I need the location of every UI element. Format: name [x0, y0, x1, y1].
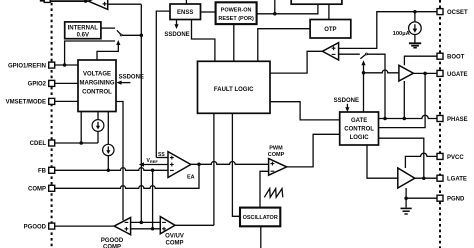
wire PGND pin	[406, 197, 437, 199]
current source I1 wires	[97, 112, 99, 120]
svg-text:MARGINING: MARGINING	[80, 81, 115, 87]
pin PGND	[437, 195, 443, 201]
svg-text:EA: EA	[187, 175, 195, 181]
wire gate control to lower driver input	[367, 145, 398, 178]
wire switch SW1 control from voltage margining control	[97, 44, 118, 60]
svg-text:GPIO1/REFIN: GPIO1/REFIN	[8, 63, 46, 69]
IC boundary right (dashed)	[439, 0, 441, 248]
wire cut block to OTP	[328, 4, 330, 19]
internal 0.6V reference U-REF	[65, 22, 101, 39]
wire FB net (with hops)	[55, 168, 168, 171]
IC boundary left (dashed)	[51, 3, 53, 248]
wire shared - inputs (VREF node)	[131, 221, 161, 223]
svg-text:SSDONE: SSDONE	[334, 98, 359, 104]
wire ENSS to POR	[201, 11, 216, 13]
node driver input tap	[362, 71, 366, 75]
wire OC output to fault logic	[270, 51, 322, 73]
node POR output branch	[273, 12, 277, 16]
svg-text:CONTROL: CONTROL	[82, 89, 112, 95]
wire FB down to comparators	[152, 170, 154, 229]
wire 100uA source top	[414, 12, 416, 22]
arrow SSDONE into margining control	[116, 81, 121, 85]
node EA output	[197, 163, 201, 167]
power-on reset block	[216, 2, 257, 24]
svg-text:OSCILLATOR: OSCILLATOR	[243, 215, 278, 221]
pin COMP	[49, 185, 55, 191]
svg-text:VREF: VREF	[147, 158, 159, 164]
wire LGATE output	[415, 177, 437, 179]
arrow SW2 control	[363, 64, 365, 73]
node REFIN tap on GPIO1 wire	[63, 63, 67, 67]
svg-text:SSDONE: SSDONE	[119, 74, 144, 80]
sawtooth waveform symbol	[264, 189, 283, 198]
oscillator block	[240, 208, 280, 227]
svg-text:COMP: COMP	[103, 244, 121, 248]
node I2 on FB line	[107, 169, 111, 173]
wire 0.6V output to switch	[101, 27, 115, 29]
comparator OV/UV	[160, 217, 175, 234]
svg-text:PHASE: PHASE	[447, 117, 468, 123]
wire PVCC to lower driver (hop over LGATE feedback)	[405, 153, 437, 168]
svg-text:PWM: PWM	[269, 146, 283, 152]
wire gate control to PHASE	[379, 115, 438, 118]
svg-text:LGATE: LGATE	[447, 177, 467, 183]
svg-text:CONTROL: CONTROL	[344, 126, 374, 132]
wire OV/UV output to fault logic	[175, 224, 214, 226]
node FB at comparators	[151, 227, 155, 231]
wire upper driver input (hop over sample line)	[364, 70, 399, 73]
pin LGATE	[437, 175, 443, 181]
ground symbol (power ground)	[401, 207, 412, 209]
ground symbol (OCSET source)	[409, 42, 421, 44]
node VREF at comparators	[140, 221, 144, 225]
pin top-left (cut off)	[44, 0, 50, 2]
svg-text:GPIO2: GPIO2	[28, 82, 47, 88]
wire OV/UV comparator to fault logic	[213, 113, 215, 225]
arrow SSDONE out of ENSS	[176, 20, 178, 26]
switch SW2 contact	[366, 53, 368, 55]
svg-text:PGND: PGND	[447, 197, 465, 203]
wire oscillator bottom (cut)	[260, 226, 262, 248]
wire 100uA to ground	[414, 35, 416, 43]
comparator PWM	[269, 159, 287, 176]
wire ENSS to SS (error amp)	[156, 11, 170, 157]
fault logic block	[198, 61, 271, 113]
node FB to comparators	[151, 169, 155, 173]
svg-text:GATE: GATE	[351, 118, 367, 124]
pin GPIO1/REFIN	[49, 62, 55, 68]
node 100uA tap on OCSET	[413, 10, 417, 14]
ENSS block	[170, 4, 201, 20]
wire GPIO1/REFIN to margining control	[55, 64, 78, 66]
wire POR to fault logic	[233, 24, 235, 61]
wire margining control to PGOOD comparator	[116, 102, 123, 221]
wire OCSET net	[339, 12, 437, 49]
wire top-left pin to comparator output	[50, 0, 89, 2]
node PHASE sample tap	[383, 117, 387, 121]
svg-text:OCSET: OCSET	[447, 10, 468, 16]
arrow SSDONE into gate control	[346, 104, 348, 109]
pin PVCC	[437, 153, 443, 159]
wire BOOT to upper driver	[404, 56, 437, 65]
node PHASE driver return tap	[403, 117, 407, 121]
svg-text:OTP: OTP	[324, 27, 336, 33]
wire CDEL pin to node	[55, 142, 98, 144]
pin CDEL	[49, 140, 55, 146]
node UGATE	[423, 72, 427, 76]
svg-text:POWER-ON: POWER-ON	[221, 8, 252, 14]
wire POR output right	[257, 4, 318, 14]
svg-text:PGOOD: PGOOD	[24, 224, 47, 230]
pin FB	[49, 167, 55, 173]
current source I2	[103, 144, 114, 155]
wire switch common to reference node	[122, 34, 141, 36]
wire oscillator to fault logic	[232, 113, 240, 216]
wire LGATE feedback from gate control	[379, 138, 424, 178]
wire shared + inputs (FB node)	[131, 228, 161, 230]
svg-text:CDEL: CDEL	[30, 141, 47, 147]
switch SW1 contact	[120, 34, 122, 36]
svg-text:BOOT: BOOT	[447, 55, 465, 61]
wire PWM output to gate control logic	[287, 134, 340, 167]
switch SW2 blade	[360, 54, 366, 59]
driver upper (UGATE)	[399, 65, 414, 81]
wire oscillator ramp to PWM - input	[260, 171, 269, 208]
OTP block	[310, 20, 351, 39]
wire COMP net (with hops)	[55, 164, 199, 188]
comparator PGOOD	[114, 218, 130, 235]
wire margining control to CDEL node	[80, 112, 82, 144]
current source I2 wires	[107, 112, 109, 145]
svg-text:VMSET/MODE: VMSET/MODE	[6, 100, 46, 106]
wire ENSS top stub (cut)	[185, 0, 187, 4]
current source I1	[92, 120, 104, 132]
pin BOOT	[437, 53, 443, 59]
arrow SW1 control	[116, 40, 120, 45]
node on top output wire	[84, 0, 87, 3]
pin PHASE	[437, 116, 443, 122]
wire PGOOD comparator output to PGOOD pin	[55, 225, 114, 227]
wire fault logic to gate control logic	[270, 102, 340, 120]
wire OTP input from fault logic	[258, 29, 310, 62]
svg-text:COMP: COMP	[166, 241, 184, 247]
svg-text:PVCC: PVCC	[447, 155, 464, 161]
svg-text:FB: FB	[38, 169, 47, 175]
wire comparator + input from reference node	[108, 3, 142, 5]
svg-text:100µA: 100µA	[393, 31, 411, 37]
voltage margining control block	[78, 60, 116, 112]
comparator top-left (cut off)	[89, 0, 108, 9]
wire upper driver return to PHASE	[403, 81, 405, 119]
wire reference vertical (VREF node)	[140, 4, 142, 222]
svg-text:FAULT LOGIC: FAULT LOGIC	[214, 87, 254, 93]
wire EA output to PWM comparator (with hops)	[191, 162, 269, 165]
svg-text:SSDONE: SSDONE	[164, 32, 189, 38]
svg-text:OV/UV: OV/UV	[165, 234, 184, 240]
wire SS into error amp	[156, 157, 168, 159]
node LGATE	[422, 176, 426, 180]
node reference/switch junction	[140, 34, 144, 38]
pin VMSET/MODE	[49, 98, 55, 104]
comparator OC (overcurrent)	[322, 43, 338, 60]
cut-off label fragment top-left	[40, 0, 44, 2]
svg-text:RESET (POR): RESET (POR)	[218, 16, 254, 22]
wire POR branch up (cut)	[274, 0, 276, 14]
svg-text:ENSS: ENSS	[177, 10, 193, 16]
driver lower (LGATE)	[398, 168, 415, 188]
pin UGATE	[437, 70, 443, 76]
wire VREF into error amp	[141, 164, 168, 166]
wire ENSS to fault logic	[192, 20, 215, 62]
wire OC - input to sample switch	[339, 53, 360, 55]
pin GPIO2	[49, 80, 55, 86]
current source 100uA	[409, 22, 422, 35]
wire GPIO2 to margining control	[55, 82, 78, 84]
switch SW1 blade	[117, 30, 121, 34]
node PGND	[404, 196, 408, 200]
svg-text:0.6V: 0.6V	[77, 33, 89, 39]
wire VMSET/MODE to margining control	[55, 100, 78, 102]
svg-text:UGATE: UGATE	[447, 72, 468, 78]
wire gate control to SW2 control / upper driver input	[363, 73, 365, 112]
gate control logic block	[340, 112, 379, 145]
svg-text:LOGIC: LOGIC	[350, 135, 370, 141]
svg-text:PGOOD: PGOOD	[101, 238, 124, 244]
svg-text:COMP: COMP	[28, 187, 46, 193]
wire REFIN branch	[65, 41, 116, 65]
wire UGATE output	[413, 72, 437, 74]
pin OCSET	[437, 9, 443, 15]
node CDEL junction	[79, 141, 83, 145]
svg-text:INTERNAL: INTERNAL	[68, 26, 99, 32]
wire UGATE feedback to gate control	[379, 73, 426, 127]
wire SW2 to PHASE node	[367, 54, 385, 118]
arrow VREF (points left)	[139, 162, 144, 166]
block cut off at top edge	[291, 0, 342, 4]
pin PGOOD	[49, 223, 55, 229]
error amp EA	[168, 152, 191, 178]
wire lower driver return to PGND	[405, 188, 407, 208]
svg-text:COMP: COMP	[268, 152, 285, 158]
svg-text:VOLTAGE: VOLTAGE	[83, 72, 111, 78]
